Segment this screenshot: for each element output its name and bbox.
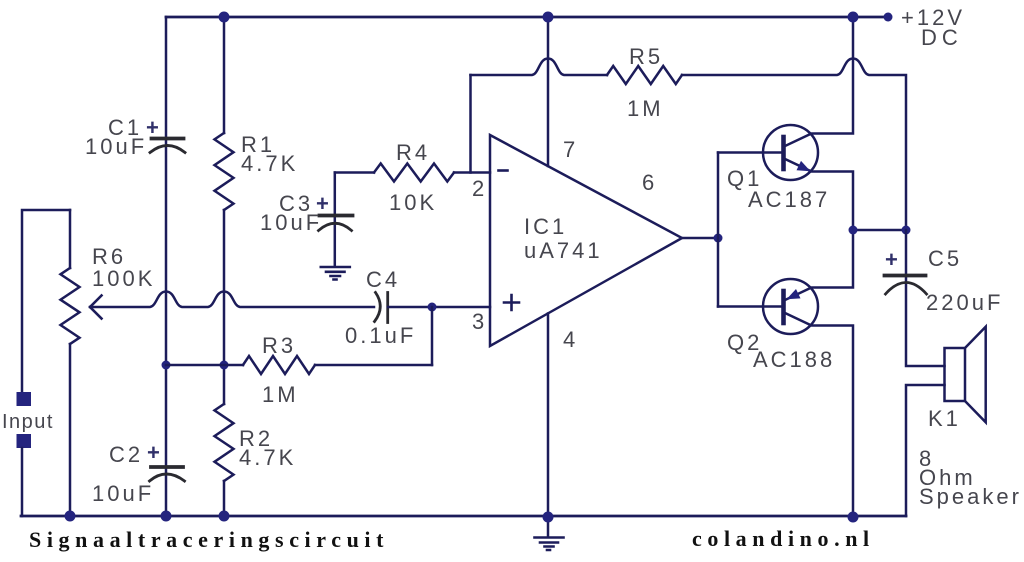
- terminal: Input upper square: [17, 392, 32, 406]
- svg-text:4.7K: 4.7K: [241, 151, 298, 176]
- transistor Q2 base bar: [781, 291, 786, 323]
- op-amp IC1 triangle: [490, 135, 682, 346]
- capacitor C2 curved plate: [150, 474, 185, 481]
- junction dot: output node: [714, 234, 723, 243]
- op-amp pin 4 wire: [547, 314, 550, 538]
- junction dot: emitters: [849, 226, 858, 235]
- svg-text:C5: C5: [928, 246, 962, 271]
- capacitor C5 curved plate: [886, 283, 927, 295]
- svg-text:1M: 1M: [627, 96, 664, 121]
- svg-text:10uF: 10uF: [260, 210, 322, 235]
- wire: Q1 base lead: [718, 151, 784, 154]
- R6 wiper arrow: [90, 296, 102, 319]
- wire: R6 bottom lead to rail: [69, 344, 72, 516]
- capacitor C3 top plate: [320, 214, 353, 218]
- svg-text:R4: R4: [396, 140, 430, 165]
- svg-text:6: 6: [642, 170, 657, 195]
- junction dot: top rail R1: [219, 12, 230, 23]
- wire: R3 riser to pin3 node: [431, 307, 434, 365]
- ground symbol at pin 4: [535, 538, 564, 551]
- junction dot: top rail Q1 collector: [848, 12, 859, 23]
- wire: emitter node to C5: [853, 229, 906, 232]
- resistor R3: [243, 356, 315, 374]
- junction dot: top rail pin7: [543, 12, 554, 23]
- svg-text:4: 4: [563, 327, 578, 352]
- svg-text:1M: 1M: [262, 382, 299, 407]
- capacitor C2 top plate: [151, 465, 183, 469]
- svg-text:Speaker: Speaker: [919, 484, 1022, 509]
- transistor Q2 circle: [763, 279, 818, 334]
- svg-text:220uF: 220uF: [926, 290, 1003, 315]
- wire: op-amp output to base node: [682, 237, 718, 240]
- capacitor C4 left curved plate: [375, 293, 381, 322]
- op-amp pin 7 wire: [547, 17, 550, 166]
- wire: Q2 base lead: [718, 305, 784, 308]
- wire: wiper line with crossover humps to C4: [90, 292, 374, 308]
- svg-text:10uF: 10uF: [92, 481, 154, 506]
- svg-text:C4: C4: [366, 267, 400, 292]
- junction dot: bottom rail C2: [161, 511, 172, 522]
- wire: base bus vertical: [717, 153, 720, 307]
- svg-text:+: +: [146, 115, 159, 140]
- potentiometer R6 body: [61, 268, 80, 344]
- resistor R4: [374, 164, 454, 182]
- wire: R1 bottom to R2 top (x=224): [223, 210, 226, 404]
- op-amp inverting input minus sign: [499, 169, 508, 172]
- svg-text:IC1: IC1: [524, 214, 567, 239]
- svg-text:10uF: 10uF: [85, 134, 147, 159]
- capacitor C4 right plate: [386, 293, 389, 323]
- svg-text:uA741: uA741: [524, 238, 603, 263]
- svg-text:2: 2: [472, 176, 487, 201]
- svg-text:3: 3: [472, 309, 487, 334]
- resistor R5: [607, 66, 682, 84]
- wire: R5 right lead with crossover hump: [682, 59, 906, 231]
- resistor R1: [215, 133, 234, 210]
- op-amp non-inverting plus sign: [504, 295, 519, 310]
- resistor R2: [215, 404, 234, 481]
- svg-text:R5: R5: [629, 44, 663, 69]
- transistor Q1 circle: [763, 125, 818, 180]
- svg-text:+: +: [147, 440, 160, 465]
- transistor Q1 collector: [784, 17, 853, 147]
- wire: C4 to op-amp pin 3: [388, 306, 490, 309]
- wire: C3 branch vertical: [334, 173, 337, 267]
- transistor Q2 emitter with arrow: [784, 230, 853, 301]
- svg-text:0.1uF: 0.1uF: [345, 323, 416, 348]
- svg-text:C2: C2: [109, 442, 143, 467]
- capacitor C1 top plate: [152, 137, 184, 141]
- junction dot: bottom rail R6: [65, 511, 76, 522]
- wire: R5 left lead with crossover hump: [471, 59, 608, 76]
- svg-text:+: +: [885, 247, 898, 272]
- ground symbol at C3: [321, 267, 350, 280]
- wire: R3 right lead: [315, 364, 432, 367]
- wire: C5 branch down to speaker: [906, 230, 945, 366]
- svg-text:Signaaltraceringscircuit: Signaaltraceringscircuit: [29, 527, 389, 552]
- transistor Q2 collector: [784, 313, 853, 517]
- wire: R4 right lead to op-amp pin 2: [454, 171, 490, 174]
- junction dot: C5 top: [902, 226, 911, 235]
- svg-text:DC: DC: [921, 25, 963, 50]
- junction dot: C4/R3 node: [428, 303, 437, 312]
- svg-text:10K: 10K: [389, 190, 437, 215]
- junction dot: R3 at x=224: [220, 361, 229, 370]
- junction dot: bottom rail ground: [543, 512, 554, 523]
- terminal: Input lower square: [17, 434, 32, 448]
- svg-text:AC188: AC188: [753, 347, 835, 372]
- capacitor C3 curved plate: [319, 223, 352, 230]
- svg-text:colandino.nl: colandino.nl: [692, 526, 875, 551]
- wire: R3 left leads: [166, 364, 243, 367]
- wire: R2 bottom lead to rail: [223, 481, 226, 516]
- wire: R1 top lead from rail: [223, 17, 226, 133]
- junction dot: bottom rail Q2 collector: [848, 512, 859, 523]
- terminal dot: +12V: [884, 13, 893, 22]
- svg-text:100K: 100K: [92, 266, 155, 291]
- wire: +12V top supply rail: [166, 16, 888, 19]
- svg-text:4.7K: 4.7K: [239, 445, 296, 470]
- wire: speaker bottom lead to rail: [906, 385, 945, 516]
- wire: ground bottom rail: [21, 515, 906, 518]
- junction dot: bottom rail R2: [219, 511, 230, 522]
- svg-text:K1: K1: [928, 406, 961, 431]
- svg-text:R3: R3: [262, 333, 296, 358]
- wire: R5 left riser: [469, 75, 472, 173]
- wire: C1/C2 branch vertical (x=166): [165, 17, 168, 516]
- wire: input lower lead to rail: [21, 448, 24, 516]
- capacitor C1 curved plate: [150, 146, 185, 153]
- wire: R4 left lead: [335, 171, 374, 174]
- wire: R6 top lead: [69, 210, 72, 268]
- speaker K1 cone: [965, 327, 986, 423]
- capacitor C5 top plate: [885, 274, 926, 278]
- transistor Q1 emitter with arrow: [784, 159, 853, 231]
- svg-text:Input: Input: [2, 411, 54, 433]
- junction dot: R3 left at x=166: [162, 361, 171, 370]
- transistor Q1 base bar: [781, 137, 786, 169]
- svg-text:7: 7: [563, 137, 578, 162]
- wire: input top link: [22, 210, 70, 392]
- svg-text:AC187: AC187: [748, 187, 830, 212]
- speaker K1 frame: [945, 348, 966, 401]
